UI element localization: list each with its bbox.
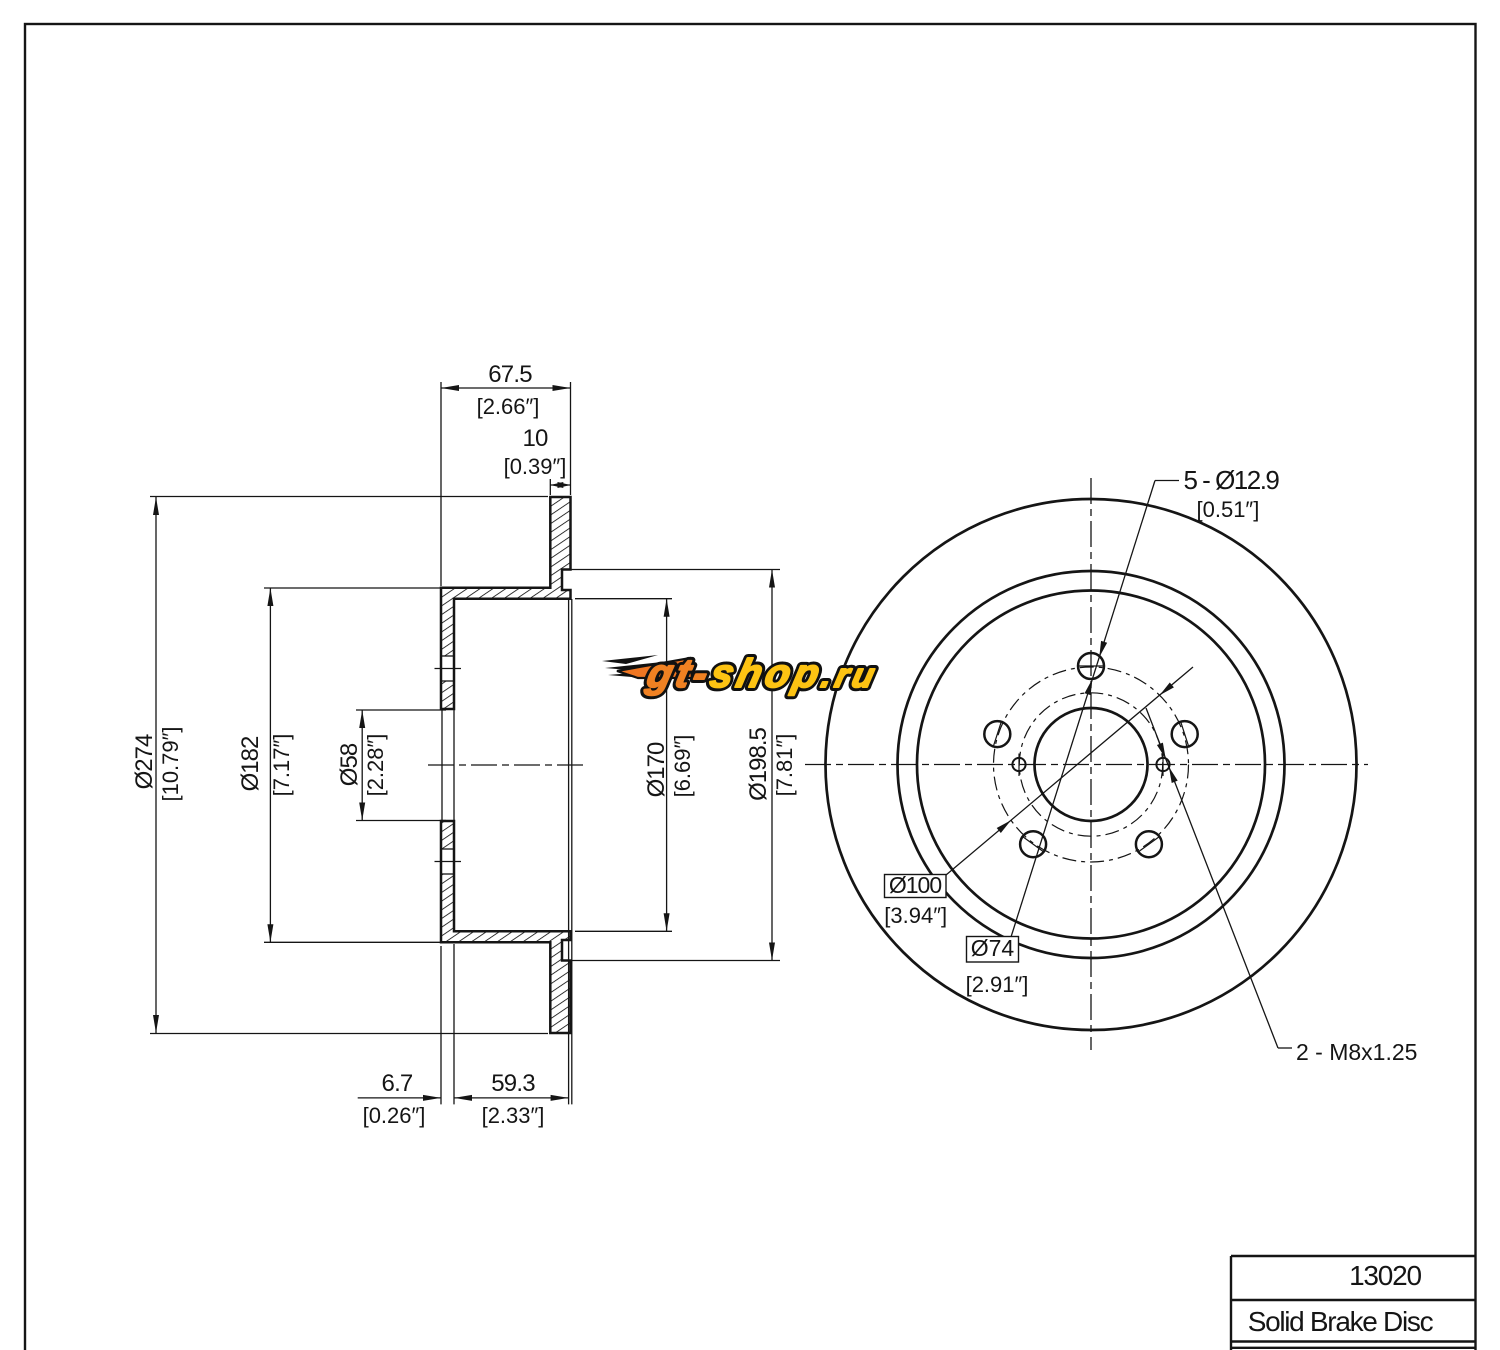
svg-text:13020: 13020 xyxy=(1349,1260,1421,1291)
svg-text:Ø100: Ø100 xyxy=(889,872,941,898)
svg-text:[2.66″]: [2.66″] xyxy=(477,394,540,419)
svg-text:[7.17″]: [7.17″] xyxy=(269,734,294,797)
svg-text:[2.91″]: [2.91″] xyxy=(966,972,1029,997)
svg-text:2 - M8x1.25: 2 - M8x1.25 xyxy=(1296,1039,1417,1065)
svg-text:[10.79″]: [10.79″] xyxy=(158,726,183,801)
svg-text:Solid Brake Disc: Solid Brake Disc xyxy=(1248,1306,1434,1337)
svg-text:10: 10 xyxy=(522,425,548,452)
svg-text:[2.33″]: [2.33″] xyxy=(482,1103,545,1128)
svg-text:5 - Ø12.9: 5 - Ø12.9 xyxy=(1184,465,1280,495)
svg-text:6.7: 6.7 xyxy=(382,1070,413,1097)
svg-text:Ø170: Ø170 xyxy=(643,742,670,797)
svg-text:Ø182: Ø182 xyxy=(237,736,264,791)
svg-text:[3.94″]: [3.94″] xyxy=(884,903,947,928)
svg-text:Ø274: Ø274 xyxy=(131,734,158,789)
svg-text:gt-shop.ru: gt-shop.ru xyxy=(642,650,884,695)
svg-text:59.3: 59.3 xyxy=(491,1070,535,1097)
svg-text:67.5: 67.5 xyxy=(488,361,532,388)
svg-text:[6.69″]: [6.69″] xyxy=(670,735,695,798)
svg-text:Ø198.5: Ø198.5 xyxy=(745,727,772,800)
svg-text:[7.81″]: [7.81″] xyxy=(772,734,797,797)
svg-text:[0.51″]: [0.51″] xyxy=(1197,497,1260,522)
svg-text:[0.39″]: [0.39″] xyxy=(504,454,567,479)
svg-text:[0.26″]: [0.26″] xyxy=(363,1103,426,1128)
svg-text:[2.28″]: [2.28″] xyxy=(363,734,388,797)
svg-text:Ø74: Ø74 xyxy=(971,935,1015,961)
svg-text:Ø58: Ø58 xyxy=(336,743,363,786)
